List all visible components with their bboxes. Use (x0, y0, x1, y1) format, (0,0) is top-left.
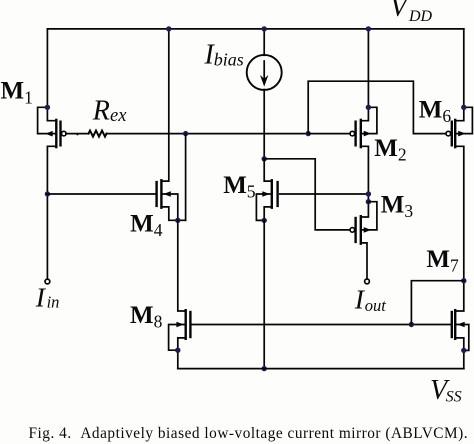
svg-text:M: M (426, 246, 450, 273)
transistor M7 (NMOS) (452, 310, 469, 368)
transistor M3 (PMOS) (350, 202, 377, 279)
terminal Iin (45, 279, 50, 284)
wire Ibias node to M3 gate (264, 159, 350, 230)
svg-text:4: 4 (154, 220, 163, 240)
wire VSS rail (178, 368, 464, 370)
node M2 source/bulk (366, 105, 371, 110)
wire M4 drain to VDD (161, 29, 168, 181)
resistor Rex (66, 131, 308, 137)
node M2 drain / M5 gate (366, 191, 371, 196)
svg-text:7: 7 (450, 256, 459, 276)
node VDD / M4 drain (166, 26, 171, 31)
label M1 (1, 78, 33, 108)
node gate line / drain tie (409, 322, 414, 327)
node M4 source/bulk (175, 218, 180, 223)
node Rex / M2 gate / M6 gate riser (306, 131, 311, 136)
svg-text:out: out (365, 296, 387, 315)
node M3 source/bulk (366, 199, 371, 204)
node M8 source/bulk (175, 348, 180, 353)
label VDD (390, 0, 433, 25)
node M7 source/bulk (461, 348, 466, 353)
terminal Iout (365, 279, 370, 284)
label M8 (130, 302, 163, 332)
label Ibias (204, 40, 244, 71)
node VSS / M5 source (262, 366, 267, 371)
svg-text:5: 5 (247, 181, 256, 201)
transistor M2 (PMOS) (350, 29, 377, 217)
transistor M4 (NMOS) (157, 180, 186, 220)
transistor M8 (NMOS) (169, 310, 191, 368)
svg-text:I: I (35, 282, 47, 313)
svg-text:M: M (419, 97, 443, 124)
wire left rail (M1 source feed from VDD) (47, 29, 56, 121)
node M1 drain / M4 gate tap (45, 191, 50, 196)
label M7 (426, 246, 459, 276)
svg-text:M: M (381, 191, 405, 218)
label M6 (419, 97, 452, 127)
wire gate line up to M7 drain (411, 281, 463, 325)
svg-text:R: R (92, 96, 110, 127)
svg-text:DD: DD (408, 8, 433, 25)
node VDD / M2 source (366, 26, 371, 31)
transistor M1 (PMOS) (38, 107, 67, 279)
svg-text:M: M (1, 78, 25, 105)
svg-text:in: in (47, 293, 60, 312)
wire M8 gate to M7 gate (190, 324, 451, 326)
svg-text:2: 2 (398, 145, 407, 165)
svg-text:M: M (223, 172, 247, 199)
svg-text:8: 8 (154, 312, 163, 332)
wire Rex node to M6 gate (308, 81, 446, 133)
wire M1 drain to M4 gate (47, 193, 156, 195)
node M6 source/bulk (461, 105, 466, 110)
label Iout (354, 283, 387, 315)
svg-text:ex: ex (110, 106, 127, 126)
node Ibias / M5 drain / M3 gate (262, 156, 267, 161)
node M6 drain / M7 gate tie (461, 278, 466, 283)
svg-text:3: 3 (404, 201, 413, 221)
wire Rex node down to M4 source (185, 134, 187, 221)
label Rex (92, 96, 127, 127)
node VDD / Ibias (262, 26, 267, 31)
svg-text:Fig. 4. Adaptively biased low: Fig. 4. Adaptively biased low-voltage cu… (29, 425, 469, 442)
svg-text:V: V (390, 0, 410, 23)
svg-text:SS: SS (446, 389, 462, 406)
label M3 (381, 191, 414, 221)
wire M2 gate (308, 133, 350, 135)
node Rex / M4 source riser (183, 131, 188, 136)
svg-text:bias: bias (214, 50, 244, 70)
label M2 (374, 135, 406, 165)
svg-text:6: 6 (442, 106, 451, 126)
svg-text:M: M (130, 211, 154, 238)
wire M5 gate to M2 drain (280, 193, 369, 195)
node M5 source/bulk (262, 218, 267, 223)
wire M4 source to M8 drain (178, 220, 186, 311)
label VSS (430, 375, 462, 406)
wire VDD rail (47, 28, 463, 30)
label M4 (130, 211, 163, 241)
label M5 (223, 172, 256, 202)
transistor M6 (PMOS) (446, 29, 472, 311)
svg-text:M: M (130, 302, 154, 329)
node M1 source/bulk (45, 105, 50, 110)
label Iin (35, 282, 60, 313)
svg-text:1: 1 (24, 88, 33, 108)
wire M5 source to VSS (263, 220, 265, 368)
current source Ibias (247, 29, 282, 159)
transistor M5 (NMOS) (256, 159, 277, 221)
svg-text:M: M (374, 135, 398, 162)
